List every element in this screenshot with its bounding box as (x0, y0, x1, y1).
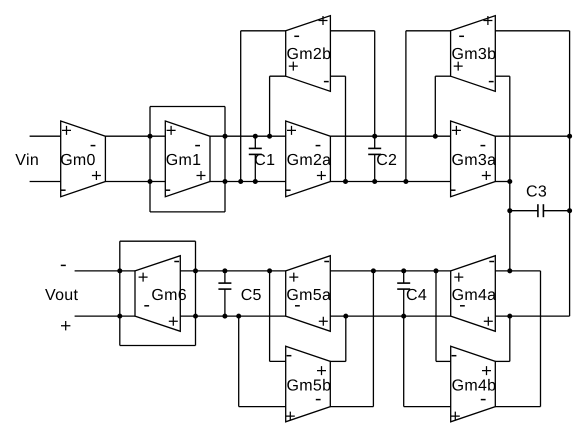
junction Gm6 box right on top rail (193, 268, 198, 273)
wire node5 bottom rail Gm6 to Gm5a (180, 315, 285, 317)
svg-text:C2: C2 (376, 152, 397, 169)
svg-text:Gm4a: Gm4a (452, 287, 497, 304)
junction C1 top (253, 134, 258, 139)
junction C5 bottom (222, 314, 227, 319)
junction C4 top (401, 268, 406, 273)
junction Gm2b out+ at node1 top rail (267, 134, 272, 139)
junction Gm1 box left on bottom rail (148, 179, 153, 184)
capacitor C3 (510, 184, 570, 218)
wire Gm0 out- to Gm1 in+ (top rail) (105, 135, 165, 137)
transconductor Gm2a (286, 121, 332, 197)
wire Gm2b out+ down to node1 top rail (270, 76, 286, 136)
wire Gm2b in+ down to node2 top rail (330, 31, 374, 136)
wire node5 top rail Gm6 to Gm5a (180, 270, 285, 272)
wire Vin- input (30, 181, 61, 183)
wire V2 vertical (node3+ / C3 right / node4- rail) (569, 31, 571, 316)
junction Gm1 box right on bottom rail (223, 179, 228, 184)
wire node4 bottom rail Gm4a to V2 (495, 315, 569, 317)
svg-text:Gm4b: Gm4b (452, 377, 497, 394)
transconductor Gm4a (451, 256, 497, 332)
svg-text:C3: C3 (526, 184, 547, 201)
transconductor Gm5b (286, 346, 332, 422)
junction Gm1 box left on top rail (148, 134, 153, 139)
transconductor Gm2b (286, 16, 332, 92)
capacitor C2 (368, 136, 397, 181)
transconductor Gm6 (135, 256, 187, 332)
junction Gm6 box left on top rail (117, 268, 122, 273)
wire Gm4b out+ up to node4 bottom rail (495, 316, 510, 361)
Gm1 unity feedback loop box (150, 107, 225, 212)
wire node4 top rail Gm4a to corner (495, 270, 540, 272)
junction node4 bottom rail at x=509.8 (507, 314, 512, 319)
junction Gm2b out- at node1 bottom rail (238, 179, 243, 184)
svg-text:Gm6: Gm6 (151, 287, 187, 304)
wire Gm3b in+ to V2 (495, 30, 569, 32)
wire Vin+ input (30, 135, 61, 137)
svg-text:Vin: Vin (15, 152, 39, 169)
junction V2 at C3 right (567, 208, 572, 213)
svg-text:Gm2a: Gm2a (287, 152, 332, 169)
junction Gm5b out+ at node6 bottom rail (343, 314, 348, 319)
wire Vout+ output (75, 315, 135, 317)
svg-text:C5: C5 (241, 287, 262, 304)
wire node6 bottom rail Gm5a to Gm4a (330, 315, 450, 317)
wire node2 bottom rail Gm2a to Gm3a (330, 181, 450, 183)
capacitor C4 (397, 271, 427, 407)
wire Gm2b out- down to node1 bottom rail (241, 31, 286, 182)
capacitor C1 (249, 136, 276, 181)
wire node1 top rail Gm1 to Gm2a (210, 135, 286, 137)
svg-text:Gm1: Gm1 (166, 152, 202, 169)
svg-text:C1: C1 (254, 152, 275, 169)
wire Gm5b in- up to node5 top rail (270, 271, 286, 362)
wire Gm3b out+ down to node2 top rail (435, 76, 450, 136)
junction Gm5b in+ at node5 bottom rail (236, 314, 241, 319)
junction Gm6 box right on bottom rail (193, 314, 198, 319)
junction Gm2b in- at node2 bottom rail (343, 179, 348, 184)
svg-text:Gm5a: Gm5a (286, 287, 331, 304)
junction V1 at node3 bottom rail (507, 179, 512, 184)
wire Gm3b out- down to node2 bottom rail (406, 31, 451, 182)
wire node6 top rail Gm5a to Gm4a (330, 270, 450, 272)
transconductor Gm1 (165, 121, 210, 197)
wire Gm5b out+ up to node6 bottom rail (330, 316, 346, 361)
junction Gm1 box right on top rail (223, 134, 228, 139)
transconductor Gm3b (451, 16, 497, 92)
junction C1 bottom (253, 179, 258, 184)
wire Gm5b in+ up to node5 bottom rail (239, 316, 286, 407)
label Vout minus polarity (61, 264, 66, 266)
wire Gm5b out- up to node6 top rail (330, 271, 373, 407)
wire V1 vertical (node3- / C3 left / node4+) (509, 76, 511, 271)
junction Gm4b in- at node6 top rail (434, 268, 439, 273)
svg-text:C4: C4 (406, 287, 427, 304)
capacitor C5 (218, 271, 261, 316)
transconductor Gm4b (451, 346, 497, 422)
junction V1 at node4 top rail (507, 268, 512, 273)
wire node1 bottom rail Gm1 to Gm2a (210, 181, 286, 183)
svg-text:Gm3a: Gm3a (452, 152, 497, 169)
svg-text:Gm0: Gm0 (60, 152, 96, 169)
transconductor Gm5a (286, 256, 331, 332)
wire node3 top rail Gm3a to V2 (495, 135, 569, 137)
wire node3 bottom rail Gm3a to V1 (495, 181, 510, 183)
wire Gm3b in- to V1 (495, 75, 510, 77)
wire Gm0 out+ to Gm1 in- (bottom rail) (105, 181, 165, 183)
svg-text:Gm2b: Gm2b (287, 46, 332, 63)
wire Vout- output (75, 270, 135, 272)
Gm6 unity feedback loop box (120, 241, 196, 345)
svg-text:Vout: Vout (45, 287, 78, 304)
junction V2 at node3 top rail (567, 134, 572, 139)
junction Gm5b out- at node6 top rail (371, 268, 376, 273)
junction Gm5b in- at node5 top rail (267, 268, 272, 273)
junction Gm3b out+ at node2 top rail (433, 134, 438, 139)
wire Gm2b in- down to node2 bottom rail (330, 76, 345, 181)
junction C2 bottom (372, 179, 377, 184)
wire node2 top rail Gm2a to Gm3a (330, 135, 450, 137)
junction V1 at C3 left (507, 208, 512, 213)
label Vout plus polarity (61, 321, 70, 330)
wire Gm4b out- up to node4 top rail (495, 271, 540, 407)
transconductor Gm3a (451, 121, 497, 197)
junction Gm3b out- at node2 bottom rail (403, 179, 408, 184)
transconductor Gm0 (60, 121, 105, 197)
svg-text:Gm3b: Gm3b (452, 46, 497, 63)
junction Gm2b in+ / C2 at node2 top rail (372, 134, 377, 139)
wire Gm4b in- up to node6 top rail (436, 271, 451, 362)
junction C5 top (222, 268, 227, 273)
junction C4 bottom / Gm4b in+ (401, 314, 406, 319)
svg-text:Gm5b: Gm5b (287, 377, 332, 394)
wire Gm4b in+ from C4 leg (404, 406, 451, 408)
junction Gm6 box left on bottom rail (117, 314, 122, 319)
